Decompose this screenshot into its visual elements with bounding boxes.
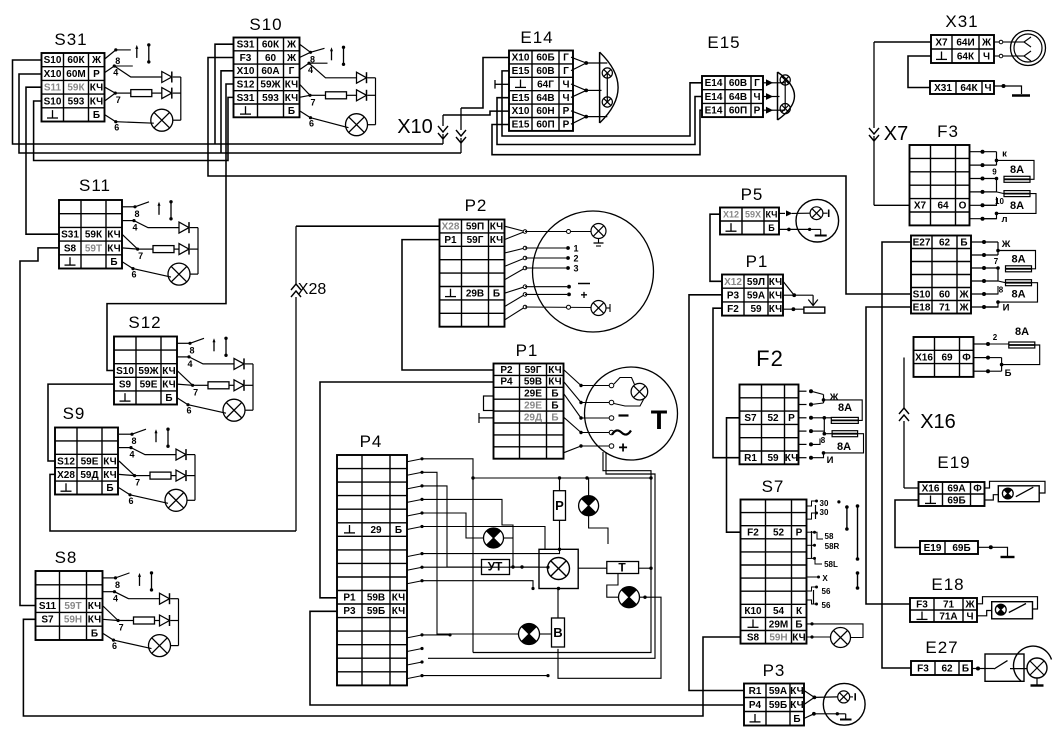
svg-text:F3: F3 (916, 599, 928, 610)
svg-text:X16: X16 (922, 483, 940, 494)
svg-text:S11: S11 (79, 176, 111, 195)
svg-text:X10: X10 (44, 69, 62, 80)
svg-text:59Г: 59Г (467, 235, 484, 246)
svg-text:60Н: 60Н (536, 106, 554, 117)
svg-text:КЧ: КЧ (548, 365, 561, 376)
svg-text:E14: E14 (705, 78, 723, 89)
svg-text:60К: 60К (67, 55, 85, 66)
svg-text:E14: E14 (520, 28, 553, 47)
svg-text:59Г: 59Г (525, 365, 542, 376)
svg-text:Г: Г (563, 53, 569, 64)
svg-text:Р4: Р4 (360, 432, 383, 451)
svg-text:E14: E14 (705, 106, 723, 117)
svg-text:Г: Г (563, 66, 569, 77)
svg-text:3: 3 (573, 264, 578, 274)
svg-text:E14: E14 (705, 92, 723, 103)
svg-text:F2: F2 (747, 528, 759, 539)
svg-text:E19: E19 (937, 453, 970, 472)
svg-text:6: 6 (114, 123, 119, 133)
svg-text:X7: X7 (935, 37, 948, 48)
svg-text:Р: Р (788, 413, 795, 424)
svg-text:59В: 59В (367, 593, 385, 604)
svg-text:Ф: Ф (962, 352, 971, 363)
svg-text:Р: Р (754, 106, 761, 117)
svg-text:Ж: Ж (286, 40, 297, 51)
svg-text:Ж: Ж (286, 53, 297, 64)
svg-text:Ж: Ж (91, 55, 102, 66)
svg-text:S9: S9 (119, 380, 132, 391)
svg-text:КЧ: КЧ (162, 366, 175, 377)
svg-text:Р: Р (563, 120, 570, 131)
svg-text:X31: X31 (945, 12, 978, 31)
svg-text:КЧ: КЧ (490, 222, 503, 233)
svg-text:Б: Б (551, 412, 558, 423)
svg-text:КЧ: КЧ (285, 80, 298, 91)
svg-text:Б: Б (551, 389, 558, 400)
svg-text:Б: Б (768, 223, 775, 233)
svg-text:59А: 59А (769, 686, 787, 697)
svg-text:56: 56 (822, 587, 831, 596)
svg-text:КЧ: КЧ (792, 632, 805, 643)
svg-text:4: 4 (129, 450, 134, 460)
svg-text:69Б: 69Б (947, 495, 965, 506)
svg-text:71А: 71А (939, 611, 957, 622)
svg-text:КЧ: КЧ (88, 601, 101, 612)
svg-text:4: 4 (113, 594, 118, 604)
svg-text:Б: Б (395, 525, 402, 536)
svg-text:X10: X10 (237, 66, 255, 77)
svg-text:Б: Б (960, 237, 967, 248)
svg-text:Ж: Ж (958, 302, 969, 313)
svg-text:593: 593 (262, 93, 279, 104)
svg-text:S7: S7 (762, 477, 785, 496)
svg-text:30: 30 (820, 499, 829, 508)
svg-text:КЧ: КЧ (392, 606, 405, 617)
svg-text:8: 8 (115, 580, 120, 590)
svg-text:Р2: Р2 (465, 196, 488, 215)
svg-text:X28: X28 (57, 470, 75, 481)
svg-text:60М: 60М (66, 69, 85, 80)
svg-text:F2: F2 (756, 346, 784, 371)
svg-text:59Н: 59Н (769, 632, 787, 643)
svg-text:8: 8 (999, 286, 1004, 295)
svg-text:F2: F2 (727, 304, 739, 315)
svg-text:S10: S10 (44, 96, 62, 107)
svg-text:8А: 8А (1010, 164, 1024, 176)
svg-text:Ч: Ч (753, 92, 760, 103)
svg-text:59: 59 (750, 304, 762, 315)
svg-text:Ж: Ж (958, 289, 969, 300)
svg-text:X16: X16 (915, 352, 933, 363)
svg-text:Г: Г (754, 78, 760, 89)
svg-text:Р: Р (796, 528, 803, 539)
svg-text:КЧ: КЧ (765, 210, 777, 220)
svg-text:29Е: 29Е (524, 389, 542, 400)
svg-text:58L: 58L (824, 560, 838, 569)
svg-text:59Ж: 59Ж (138, 366, 159, 377)
svg-text:X16: X16 (920, 411, 956, 433)
svg-text:X28: X28 (298, 281, 327, 298)
svg-text:6: 6 (186, 406, 191, 416)
svg-text:2: 2 (993, 333, 998, 342)
svg-text:Ч: Ч (984, 83, 991, 94)
svg-text:КЧ: КЧ (392, 593, 405, 604)
svg-text:КЧ: КЧ (490, 235, 503, 246)
svg-text:64К: 64К (960, 83, 978, 94)
svg-text:Б: Б (165, 393, 172, 404)
svg-text:к: к (1002, 149, 1007, 160)
svg-text:Т: Т (618, 561, 626, 575)
svg-text:60: 60 (939, 289, 951, 300)
svg-text:4: 4 (113, 68, 118, 78)
svg-text:О: О (959, 201, 967, 212)
svg-text:7: 7 (116, 95, 121, 105)
svg-text:29Д: 29Д (524, 412, 542, 423)
svg-text:59Т: 59Т (64, 601, 81, 612)
svg-text:E18: E18 (913, 302, 931, 313)
svg-text:7: 7 (135, 478, 140, 488)
svg-text:69А: 69А (947, 483, 965, 494)
svg-text:60К: 60К (262, 40, 280, 51)
svg-text:И: И (827, 455, 834, 466)
svg-text:И: И (1003, 303, 1010, 314)
svg-text:8: 8 (134, 209, 139, 219)
svg-text:В: В (553, 625, 562, 640)
svg-text:E15: E15 (512, 120, 530, 131)
svg-text:Р1: Р1 (343, 593, 356, 604)
svg-text:59К: 59К (85, 230, 103, 241)
svg-text:Р3: Р3 (727, 290, 740, 301)
svg-text:71: 71 (939, 302, 951, 313)
svg-text:10: 10 (995, 197, 1004, 206)
svg-text:58: 58 (825, 532, 834, 541)
svg-text:7: 7 (994, 257, 999, 266)
svg-text:E18: E18 (931, 575, 964, 594)
svg-text:7: 7 (119, 623, 124, 633)
svg-text:8: 8 (131, 436, 136, 446)
svg-text:60А: 60А (261, 66, 279, 77)
svg-text:Б: Б (962, 663, 969, 674)
svg-text:7: 7 (310, 97, 315, 107)
svg-text:60П: 60П (536, 120, 554, 131)
svg-text:8А: 8А (837, 441, 851, 453)
svg-text:S11: S11 (44, 83, 62, 94)
svg-text:Т: Т (651, 405, 668, 435)
svg-text:КЧ: КЧ (90, 83, 103, 94)
svg-text:59Б: 59Б (769, 700, 787, 711)
svg-text:64В: 64В (729, 92, 747, 103)
svg-text:X7: X7 (914, 201, 927, 212)
svg-text:59Ж: 59Ж (260, 80, 281, 91)
svg-text:Ч: Ч (983, 51, 990, 62)
svg-text:S7: S7 (41, 615, 54, 626)
svg-text:КЧ: КЧ (88, 615, 101, 626)
svg-text:КЧ: КЧ (548, 377, 561, 388)
svg-text:62: 62 (941, 663, 953, 674)
svg-text:Б: Б (91, 629, 98, 640)
svg-text:+: + (580, 288, 587, 302)
svg-text:7: 7 (138, 251, 143, 261)
svg-text:Е19: Е19 (924, 543, 942, 554)
svg-text:69: 69 (941, 352, 953, 363)
svg-text:S10: S10 (116, 366, 134, 377)
svg-text:71: 71 (943, 599, 955, 610)
svg-text:Ф: Ф (973, 483, 982, 494)
svg-text:64К: 64К (957, 51, 975, 62)
svg-text:S9: S9 (63, 404, 86, 423)
svg-text:8А: 8А (838, 402, 852, 414)
svg-text:Б: Б (795, 619, 802, 630)
svg-text:К: К (796, 606, 803, 617)
svg-text:6: 6 (128, 496, 133, 506)
svg-text:X10: X10 (512, 106, 530, 117)
svg-text:8А: 8А (1015, 326, 1029, 338)
svg-text:4: 4 (187, 359, 192, 369)
svg-text:КЧ: КЧ (162, 380, 175, 391)
svg-text:R1: R1 (744, 453, 757, 464)
svg-text:59Т: 59Т (85, 243, 102, 254)
svg-text:59Н: 59Н (64, 615, 82, 626)
svg-text:58R: 58R (825, 542, 840, 551)
svg-text:Ч: Ч (562, 79, 569, 90)
svg-text:29: 29 (370, 525, 382, 536)
svg-text:7: 7 (193, 387, 198, 397)
svg-text:Р3: Р3 (343, 606, 356, 617)
svg-text:Р3: Р3 (763, 661, 786, 680)
svg-text:Х: Х (822, 574, 828, 583)
svg-text:64: 64 (937, 201, 949, 212)
svg-text:КЧ: КЧ (103, 456, 116, 467)
svg-text:Ж: Ж (964, 599, 975, 610)
svg-text:Б: Б (551, 401, 558, 412)
svg-text:6: 6 (131, 270, 136, 280)
svg-text:Б: Б (493, 289, 500, 300)
svg-text:Ч: Ч (966, 611, 973, 622)
svg-text:Ч: Ч (562, 93, 569, 104)
svg-text:S31: S31 (61, 230, 79, 241)
svg-text:X12: X12 (724, 277, 742, 288)
svg-text:КЧ: КЧ (785, 453, 798, 464)
svg-text:60В: 60В (729, 78, 747, 89)
svg-text:64Г: 64Г (537, 79, 554, 90)
svg-text:X12: X12 (723, 210, 739, 220)
svg-text:59Е: 59Е (140, 380, 158, 391)
svg-text:Ж: Ж (1001, 239, 1011, 250)
svg-text:59: 59 (767, 453, 779, 464)
svg-text:59В: 59В (524, 377, 542, 388)
svg-text:60В: 60В (536, 66, 554, 77)
svg-text:59Х: 59Х (745, 210, 761, 220)
svg-text:КЧ: КЧ (769, 277, 782, 288)
svg-text:л: л (1001, 214, 1007, 225)
svg-text:59П: 59П (466, 222, 484, 233)
svg-text:64В: 64В (536, 93, 554, 104)
svg-text:S12: S12 (57, 456, 75, 467)
svg-text:60: 60 (265, 53, 277, 64)
svg-text:59Л: 59Л (747, 277, 765, 288)
svg-text:Б: Б (110, 257, 117, 268)
svg-text:6: 6 (309, 119, 314, 129)
svg-text:54: 54 (773, 606, 785, 617)
svg-text:8: 8 (821, 436, 826, 445)
svg-text:59Д: 59Д (80, 470, 98, 481)
svg-text:6: 6 (112, 641, 117, 651)
svg-text:Б: Б (288, 106, 295, 117)
svg-text:+: + (618, 440, 627, 457)
svg-text:Б: Б (1005, 368, 1012, 379)
svg-text:8: 8 (115, 56, 120, 66)
svg-text:8А: 8А (1010, 200, 1024, 212)
svg-text:E27: E27 (913, 237, 931, 248)
svg-text:8А: 8А (1011, 289, 1025, 301)
svg-text:Р1: Р1 (444, 235, 457, 246)
svg-text:S31: S31 (237, 93, 255, 104)
svg-text:S11: S11 (39, 601, 57, 612)
svg-text:КЧ: КЧ (103, 470, 116, 481)
svg-text:Б: Б (93, 110, 100, 121)
svg-text:Р2: Р2 (500, 365, 513, 376)
svg-text:69Б: 69Б (952, 543, 970, 554)
svg-text:Р1: Р1 (516, 341, 539, 360)
svg-text:Р: Р (93, 69, 100, 80)
svg-text:КЧ: КЧ (790, 686, 803, 697)
svg-text:X10: X10 (512, 53, 530, 64)
svg-text:S8: S8 (747, 632, 760, 643)
svg-text:52: 52 (767, 413, 779, 424)
svg-text:Г: Г (289, 66, 295, 77)
svg-text:59Е: 59Е (81, 456, 99, 467)
svg-text:R1: R1 (749, 686, 762, 697)
svg-text:52: 52 (773, 528, 785, 539)
svg-text:КЧ: КЧ (769, 290, 782, 301)
svg-text:64И: 64И (956, 37, 974, 48)
svg-text:Р: Р (555, 498, 564, 513)
svg-text:29М: 29М (769, 619, 788, 630)
svg-text:КЧ: КЧ (769, 304, 782, 315)
svg-text:9: 9 (992, 168, 997, 177)
svg-text:S7: S7 (744, 413, 757, 424)
svg-text:59К: 59К (67, 83, 85, 94)
svg-text:30: 30 (820, 508, 829, 517)
svg-text:2: 2 (573, 254, 578, 264)
svg-text:S12: S12 (237, 80, 255, 91)
svg-text:КЧ: КЧ (107, 243, 120, 254)
svg-text:F3: F3 (937, 122, 959, 141)
svg-text:Р5: Р5 (741, 185, 764, 204)
svg-text:S31: S31 (237, 40, 255, 51)
svg-text:Р: Р (563, 106, 570, 117)
svg-text:Е27: Е27 (925, 638, 958, 657)
svg-text:Б: Б (793, 714, 800, 725)
svg-text:X7: X7 (884, 123, 908, 145)
svg-text:29Е: 29Е (524, 401, 542, 412)
svg-text:S8: S8 (64, 243, 77, 254)
svg-text:S8: S8 (55, 548, 78, 567)
svg-text:Р4: Р4 (500, 377, 513, 388)
svg-text:Р4: Р4 (749, 700, 762, 711)
svg-text:E15: E15 (512, 93, 530, 104)
svg-text:8: 8 (189, 345, 194, 355)
svg-text:Р1: Р1 (746, 252, 769, 271)
svg-text:Б: Б (106, 483, 113, 494)
svg-text:59Б: 59Б (367, 606, 385, 617)
svg-text:КЧ: КЧ (90, 96, 103, 107)
svg-text:62: 62 (939, 237, 951, 248)
svg-text:X28: X28 (442, 222, 460, 233)
svg-text:S10: S10 (913, 289, 931, 300)
svg-text:S10: S10 (249, 15, 282, 34)
svg-text:КЧ: КЧ (107, 230, 120, 241)
svg-text:59А: 59А (747, 290, 765, 301)
svg-text:60П: 60П (729, 106, 747, 117)
svg-text:КЧ: КЧ (790, 700, 803, 711)
svg-text:8А: 8А (1011, 253, 1025, 265)
svg-text:X10: X10 (397, 116, 433, 138)
svg-text:F3: F3 (240, 53, 252, 64)
svg-text:56: 56 (822, 601, 831, 610)
svg-text:593: 593 (68, 96, 85, 107)
svg-text:КЧ: КЧ (285, 93, 298, 104)
svg-text:К10: К10 (744, 606, 762, 617)
svg-text:29В: 29В (466, 289, 484, 300)
svg-text:60Б: 60Б (536, 53, 554, 64)
svg-text:E15: E15 (707, 33, 740, 52)
svg-text:S12: S12 (128, 313, 161, 332)
svg-text:4: 4 (132, 223, 137, 233)
svg-text:1: 1 (573, 244, 578, 254)
svg-text:S10: S10 (44, 55, 62, 66)
svg-text:X31: X31 (934, 83, 952, 94)
svg-text:УТ: УТ (488, 560, 503, 574)
svg-text:S31: S31 (54, 30, 87, 49)
svg-text:E15: E15 (512, 66, 530, 77)
svg-text:F3: F3 (917, 663, 929, 674)
svg-text:Ж: Ж (981, 37, 992, 48)
